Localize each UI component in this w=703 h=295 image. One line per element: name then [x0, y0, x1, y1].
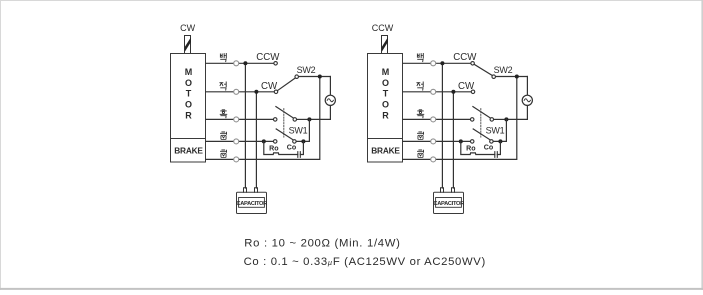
switch SW1 upper lever	[473, 107, 491, 119]
svg-text:SW1: SW1	[486, 125, 505, 135]
node SW1 lower junction	[498, 139, 502, 143]
SW1 lower-right contact	[293, 140, 297, 144]
lead label 적	[417, 82, 423, 90]
resistor Ro and snubber loop	[264, 141, 298, 154]
svg-text:BRAKE: BRAKE	[174, 145, 203, 155]
capacitor box C1	[237, 192, 267, 213]
wire W2 (red lead to CW)	[206, 91, 274, 93]
wire W1 (white lead to CCW)	[403, 62, 471, 64]
capacitor Co plates	[298, 152, 301, 158]
svg-text:SW2: SW2	[494, 65, 513, 75]
capacitor terminal bumps	[244, 188, 258, 192]
svg-text:Ro: Ro	[466, 144, 476, 152]
capacitor terminal bumps	[441, 188, 455, 192]
node on W4 (snubber tap)	[459, 139, 463, 143]
svg-text:BRAKE: BRAKE	[371, 145, 400, 155]
lead label 황	[417, 132, 423, 139]
wire line A (capacitor leg from W1)	[244, 63, 246, 188]
lead label 황	[417, 150, 423, 157]
brake box	[368, 139, 403, 163]
capacitor Co plates	[495, 152, 498, 158]
svg-text:Co: Co	[287, 143, 297, 151]
svg-text:O: O	[185, 100, 192, 110]
CW terminal circle	[274, 90, 278, 94]
svg-text:R: R	[185, 111, 192, 121]
snubber loop right leg	[300, 141, 303, 154]
node SW1 upper junction	[307, 117, 311, 121]
AC source U1	[325, 95, 335, 105]
SW1 lower-right contact	[490, 140, 494, 144]
svg-text:O: O	[382, 100, 389, 110]
svg-text:T: T	[186, 89, 192, 99]
svg-text:CW: CW	[180, 23, 195, 33]
wire SW1 lower to junction	[296, 119, 309, 141]
node on W1 (line A junction)	[243, 61, 247, 65]
wire line B (capacitor leg from W2)	[452, 92, 454, 188]
SW2 common wire	[496, 76, 528, 78]
lead label 황	[220, 150, 226, 157]
motor box M1	[171, 54, 206, 139]
switch SW1 lower lever	[473, 129, 491, 140]
SW1 upper-left contact	[273, 118, 277, 122]
brake box	[171, 139, 206, 163]
AC source rail	[309, 77, 330, 120]
SW1 gang link (dashed)	[283, 109, 285, 137]
wire W4 (brake lead to SW1 lower)	[206, 140, 273, 142]
lead label 백	[220, 53, 226, 61]
svg-text:SW1: SW1	[289, 125, 308, 135]
svg-text:Co : 0.1 ~ 0.33µF (AC125WV or: Co : 0.1 ~ 0.33µF (AC125WV or AC250WV)	[244, 256, 486, 268]
CW terminal circle	[471, 90, 475, 94]
wire W1 (white lead to CCW)	[206, 62, 274, 64]
switch SW2 lever (selects CCW)	[475, 65, 493, 76]
motor shaft	[185, 36, 191, 54]
svg-text:M: M	[382, 67, 390, 77]
SW2 pivot circle	[295, 75, 299, 79]
SW2 common wire	[299, 76, 331, 78]
SW1 gang link (dashed)	[480, 109, 482, 137]
snubber loop right leg	[497, 141, 500, 154]
motor box M2	[368, 54, 403, 139]
node on W2 (line B junction)	[254, 90, 258, 94]
wire W4 (brake lead to SW1 lower)	[403, 140, 470, 142]
node SW2 common	[515, 75, 519, 79]
switch SW1 lower lever	[276, 129, 294, 140]
motor terminal circles	[431, 61, 436, 162]
lead label 황	[220, 132, 226, 139]
lead label 백	[417, 53, 423, 61]
SW2 pivot circle	[492, 75, 496, 79]
resistor Ro and snubber loop	[461, 141, 495, 154]
node SW1 lower junction	[301, 139, 305, 143]
capacitor label frame	[436, 198, 462, 208]
node on W2 (line B junction)	[451, 90, 455, 94]
wire SW1 upper to rail	[494, 118, 507, 120]
svg-text:R: R	[382, 111, 389, 121]
wire W3 (black lead to SW1 upper)	[206, 118, 273, 120]
wire SW1 lower to junction	[493, 119, 506, 141]
motor label MOTOR	[185, 67, 193, 121]
svg-text:Ro: Ro	[269, 144, 279, 152]
svg-text:SW2: SW2	[297, 65, 316, 75]
wire W5 (brake lead to SW2 common)	[206, 77, 320, 160]
SW1 upper-right contact	[293, 118, 297, 122]
wire line B (capacitor leg from W2)	[255, 92, 257, 188]
AC source rail	[506, 77, 527, 120]
capacitor box C2	[434, 192, 464, 213]
lead label 흑	[417, 110, 424, 118]
svg-text:CAPACITOR: CAPACITOR	[433, 201, 464, 207]
node on W1 (line A junction)	[440, 61, 444, 65]
wire W5 (brake lead to SW2 common)	[403, 77, 517, 160]
svg-text:CAPACITOR: CAPACITOR	[236, 201, 267, 207]
lead label 흑	[220, 110, 227, 118]
SW1 upper-right contact	[490, 118, 494, 122]
SW1 lower-left contact	[470, 140, 474, 144]
wire line A (capacitor leg from W1)	[441, 63, 443, 188]
svg-text:Co: Co	[484, 143, 494, 151]
svg-text:M: M	[185, 67, 193, 77]
lead label 적	[220, 82, 226, 90]
CCW terminal circle	[274, 62, 278, 66]
node on W4 (snubber tap)	[262, 139, 266, 143]
capacitor label frame	[239, 198, 265, 208]
svg-text:CCW: CCW	[372, 23, 394, 33]
SW1 upper-left contact	[470, 118, 474, 122]
svg-text:O: O	[185, 78, 192, 88]
svg-text:Ro : 10 ~ 200Ω (Min. 1/4W): Ro : 10 ~ 200Ω (Min. 1/4W)	[244, 238, 400, 250]
CCW terminal circle	[471, 62, 475, 66]
wire W3 (black lead to SW1 upper)	[403, 118, 470, 120]
switch SW2 lever (selects CW)	[278, 78, 296, 91]
motor label MOTOR	[382, 67, 390, 121]
svg-text:T: T	[383, 89, 389, 99]
AC source U2	[522, 95, 532, 105]
wire W2 (red lead to CW)	[403, 91, 471, 93]
SW1 lower-left contact	[273, 140, 277, 144]
node SW2 common	[318, 75, 322, 79]
wire SW1 upper to rail	[297, 118, 310, 120]
svg-text:O: O	[382, 78, 389, 88]
motor shaft	[382, 36, 388, 54]
motor terminal circles	[234, 61, 239, 162]
node SW1 upper junction	[504, 117, 508, 121]
switch SW1 upper lever	[276, 107, 294, 119]
